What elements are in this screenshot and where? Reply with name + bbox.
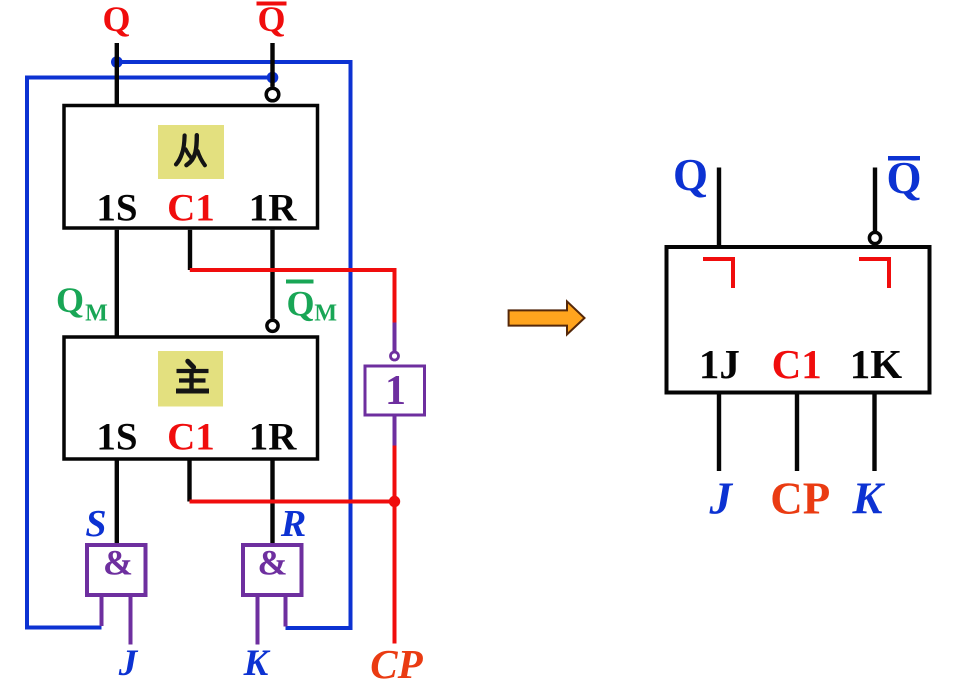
svg-text:1R: 1R (249, 187, 298, 230)
wire: G2 right input stub (purple) (284, 597, 288, 627)
master flip-flop box (64, 337, 318, 459)
svg-text:1R: 1R (249, 416, 298, 459)
node: junction dot on Q line (111, 56, 123, 68)
wire: QMbar slave 1R to master bubble (270, 230, 274, 319)
svg-text:J: J (708, 474, 733, 524)
wire: slave C1 stub down (188, 230, 192, 270)
wire: red CP to slave C1 (top red run) (190, 270, 395, 323)
svg-text:1J: 1J (699, 341, 740, 387)
wire: purple below inverter (393, 416, 397, 446)
svg-text:J: J (118, 643, 139, 684)
svg-text:R: R (280, 503, 306, 545)
wire: Qbar pin top (to bubble) (873, 168, 877, 232)
postponed-output hook left (red) (703, 259, 733, 288)
wire: Q pin into slave box (115, 43, 119, 104)
svg-text:1: 1 (385, 368, 406, 414)
right flip-flop box U2 (667, 247, 930, 393)
highlight for 从 (158, 125, 224, 179)
node: junction dot on Qbar line (267, 72, 279, 84)
svg-text:Q: Q (56, 280, 84, 320)
slave flip-flop box (64, 106, 318, 229)
wire: master 1S pin to AND gate 1 (115, 461, 119, 546)
highlight for 主 (158, 351, 223, 407)
svg-text:C1: C1 (167, 187, 215, 230)
svg-text:C1: C1 (772, 341, 822, 387)
wire: master C1 stub down (187, 461, 191, 502)
svg-text:S: S (85, 503, 106, 545)
svg-text:CP: CP (770, 474, 830, 524)
wire: purple into inverter bubble (393, 323, 397, 353)
bubble: master top inversion circle (267, 320, 278, 331)
node: CP junction dot (389, 496, 400, 507)
arrow between diagrams (509, 301, 585, 334)
svg-text:CP: CP (370, 641, 423, 687)
AND gate G2 box (243, 545, 302, 595)
wire: red CP vertical (393, 446, 397, 644)
wire: CP pin bottom (795, 393, 799, 472)
svg-text:&: & (258, 543, 288, 583)
wire: blue feedback from Q to K-gate (right loop) (117, 62, 351, 628)
bubble: right box Qbar circle (869, 232, 880, 243)
svg-text:K: K (243, 643, 271, 684)
AND gate G1 box (87, 545, 146, 595)
svg-text:Q: Q (102, 0, 130, 39)
svg-text:Q: Q (257, 0, 285, 39)
svg-text:M: M (85, 301, 108, 327)
bubble: slave Qbar inversion circle (266, 88, 279, 101)
wire: QM slave 1S to master (115, 230, 119, 336)
svg-text:M: M (314, 301, 337, 327)
svg-text:Q: Q (286, 284, 314, 324)
glyph: 主 (master) (176, 361, 209, 391)
wire: Qbar pin into slave box (to bubble) (270, 43, 274, 87)
svg-text:Q: Q (673, 150, 708, 200)
bubble: inverter input circle (391, 352, 399, 360)
svg-text:1S: 1S (96, 416, 137, 459)
wire: red CP to master C1 (190, 500, 395, 504)
wire: G1 left input stub (purple) (100, 597, 104, 626)
wire: blue feedback from Qbar to J-gate (left loop) (27, 78, 273, 628)
svg-text:1S: 1S (96, 187, 137, 230)
wire: K pin bottom (872, 393, 876, 472)
wire: Q pin top (717, 168, 721, 249)
wire: J pin bottom (717, 393, 721, 472)
postponed-output hook right (red) (859, 259, 889, 288)
svg-text:1K: 1K (850, 341, 903, 387)
wire: master 1R pin to AND gate 2 (270, 461, 274, 546)
inverter U1 box (365, 366, 425, 415)
wire: G2 K input stub (purple) (256, 597, 260, 645)
svg-text:C1: C1 (167, 416, 215, 459)
wire: G1 J input stub (purple) (129, 597, 133, 645)
svg-text:K: K (851, 474, 885, 524)
svg-text:&: & (103, 543, 133, 583)
glyph: 从 (slave) (176, 135, 205, 165)
